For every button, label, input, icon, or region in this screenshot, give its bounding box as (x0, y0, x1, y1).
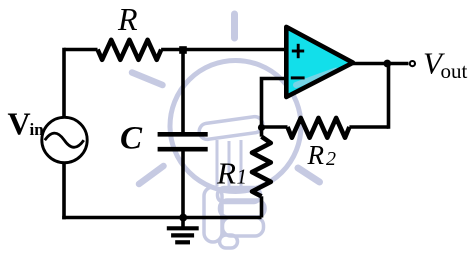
svg-text:V: V (8, 106, 31, 142)
op-amp minus sign (291, 76, 305, 79)
ground bar 2 (171, 233, 194, 237)
bulb neck capsule (204, 187, 222, 242)
wire R2 right lead (349, 125, 388, 129)
resistor R2 (288, 118, 350, 138)
svg-text:in: in (30, 120, 45, 139)
op-amp plus sign (292, 44, 304, 58)
bulb glass circle (170, 61, 301, 192)
ground stub (181, 218, 185, 227)
junction ground node (179, 214, 187, 222)
capacitor C top plate (158, 132, 208, 137)
svg-text:C: C (120, 121, 143, 157)
op-amp U1 (286, 27, 353, 97)
svg-text:1: 1 (237, 165, 248, 189)
ground bar 1 (167, 226, 199, 230)
wire R2 left lead (262, 125, 288, 129)
wire bottom (62, 216, 261, 220)
bulb base row 2 (223, 217, 264, 236)
bulb ray lower-left (139, 166, 164, 184)
light bulb watermark (132, 14, 336, 248)
wire capacitor lower (181, 151, 185, 217)
bulb ray lower-right (298, 168, 320, 182)
wire left vertical upper (62, 48, 66, 118)
svg-text:R: R (216, 156, 236, 191)
svg-text:out: out (441, 59, 468, 83)
filament leg 1 (216, 140, 219, 186)
svg-text:R: R (307, 140, 325, 170)
output terminal circle (410, 61, 415, 66)
svg-text:2: 2 (326, 148, 336, 170)
filament leg 3 (240, 140, 243, 187)
bulb filament capsule (198, 116, 264, 141)
wire R1 bottom (260, 196, 264, 217)
filament leg 2 (228, 141, 231, 188)
voltage source Vin circle (42, 117, 87, 162)
wire capacitor upper (181, 50, 185, 133)
resistor R1 (252, 137, 271, 197)
resistor R (98, 40, 162, 60)
bulb base row 1 (220, 200, 266, 217)
wire output (353, 62, 409, 66)
bulb ray seen through op-amp fill (296, 71, 336, 86)
bulb ray top (231, 14, 238, 38)
junction output node (383, 60, 391, 68)
bulb base row 0 (218, 188, 261, 203)
wire top-left lead (64, 48, 98, 52)
capacitor C bottom plate (158, 147, 208, 152)
junction top (square) (179, 46, 187, 54)
wire op-amp minus input (262, 79, 287, 137)
voltage source Vin sine wave (45, 133, 84, 147)
junction minus node (258, 124, 265, 131)
wire feedback vertical (387, 64, 391, 129)
op-amp outline (286, 27, 353, 97)
bulb base tip (220, 235, 238, 248)
bulb ray upper-left (132, 73, 163, 86)
svg-text:R: R (117, 1, 138, 37)
ground bar 3 (175, 240, 190, 244)
wire left vertical lower (62, 163, 66, 220)
bulb ray upper-right (296, 71, 336, 86)
wire top to op-amp (161, 48, 286, 52)
